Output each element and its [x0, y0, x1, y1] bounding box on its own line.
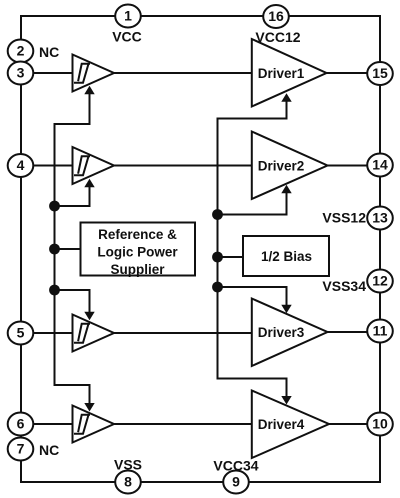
svg-text:VCC34: VCC34: [213, 458, 258, 474]
svg-text:11: 11: [373, 323, 388, 339]
buffer B1 (Schmitt input buffer, pin 3): [73, 55, 115, 92]
arrowhead: control into buffer B2: [84, 179, 94, 188]
op-amp Driver1: [252, 39, 327, 107]
Reference & Logic Power Supplier block: [81, 223, 196, 278]
junction: right bus / 1/2 Bias branch: [212, 252, 223, 263]
wire: Driver3 output to pin 11: [328, 331, 381, 333]
arrowhead: control into Driver4: [281, 396, 291, 405]
pin 6: [8, 413, 34, 436]
op-amp Driver3: [252, 299, 328, 367]
svg-text:13: 13: [372, 210, 388, 226]
net label VCC12: [255, 29, 300, 45]
net label NC (pin 2): [39, 44, 59, 60]
svg-text:1/2 Bias: 1/2 Bias: [261, 249, 312, 264]
svg-text:12: 12: [372, 273, 388, 289]
wire: buffer B4 output to Driver4 input: [114, 423, 252, 425]
op-amp Driver4: [252, 391, 329, 459]
pin 1: [115, 5, 141, 28]
net label VSS34: [322, 278, 366, 294]
junction: right bus / Driver3 branch: [212, 282, 223, 293]
svg-text:Driver4: Driver4: [258, 417, 305, 432]
wire: pin 4 to buffer B2 input: [21, 165, 73, 167]
pin 7: [8, 438, 34, 461]
svg-text:9: 9: [232, 474, 240, 490]
wire: Driver2 output to pin 14: [328, 165, 381, 167]
wire: pin 3 to buffer B1 input: [21, 72, 73, 74]
svg-text:NC: NC: [39, 44, 59, 60]
buffer B4 (Schmitt input buffer, pin 6): [73, 406, 115, 443]
pin 10: [367, 413, 393, 436]
arrowhead: control into buffer B1: [84, 86, 94, 95]
pin 16: [263, 5, 289, 28]
arrowhead: control into Driver1: [281, 93, 291, 102]
svg-text:6: 6: [17, 416, 25, 432]
arrowhead: control into buffer B3: [84, 312, 94, 321]
1/2 Bias block: [243, 236, 329, 276]
svg-text:Driver1: Driver1: [258, 66, 305, 81]
wire: buffer B1 output to Driver1 input: [114, 72, 252, 74]
svg-text:VSS34: VSS34: [322, 278, 366, 294]
arrowhead: control into Driver2: [281, 185, 291, 194]
svg-text:14: 14: [372, 157, 388, 173]
net label VSS: [114, 457, 142, 473]
wire: buffer B3 output to Driver3 input: [114, 332, 252, 334]
net label NC (pin 7): [39, 442, 59, 458]
svg-text:NC: NC: [39, 442, 59, 458]
wire: pin 5 to buffer B3 input: [21, 332, 73, 334]
svg-text:VSS12: VSS12: [322, 210, 366, 226]
pin 11: [367, 320, 393, 343]
net label VCC34: [213, 458, 258, 474]
wire: Driver4 output to pin 10: [329, 423, 380, 425]
svg-text:Logic Power: Logic Power: [97, 245, 178, 260]
pin 14: [367, 154, 393, 177]
svg-text:8: 8: [124, 474, 132, 490]
wire: right bus branch to Driver2 control arrow: [218, 193, 287, 215]
wire: left control bus (buffer B1 arrow down to buffer B4 arrow): [55, 93, 90, 404]
svg-text:VCC12: VCC12: [255, 29, 300, 45]
svg-text:Supplier: Supplier: [110, 262, 165, 277]
svg-text:5: 5: [17, 325, 25, 341]
pin 13: [367, 207, 393, 230]
arrowhead: control into buffer B4: [84, 403, 94, 412]
svg-text:4: 4: [17, 157, 25, 173]
svg-text:Reference &: Reference &: [98, 227, 177, 242]
junction: right bus / Driver2 branch: [212, 209, 223, 220]
pin 3: [8, 62, 34, 85]
wire: buffer B2 output to Driver2 input: [114, 165, 252, 167]
pin 4: [8, 154, 34, 177]
svg-text:1: 1: [124, 8, 132, 24]
wire: right bus branch to 1/2 Bias block: [218, 256, 244, 258]
svg-text:VSS: VSS: [114, 457, 142, 473]
pin 15: [367, 62, 393, 85]
pin 8: [115, 471, 141, 494]
wire: Driver1 output to pin 15: [327, 72, 381, 74]
pin 9: [223, 471, 249, 494]
wire: left bus branch to buffer B3 control arrow: [55, 290, 90, 313]
net label VSS12: [322, 210, 366, 226]
svg-text:16: 16: [268, 8, 284, 24]
junction: left bus / B3 branch: [49, 285, 60, 296]
svg-text:2: 2: [17, 43, 25, 59]
svg-text:3: 3: [17, 65, 25, 81]
wire: pin 6 to buffer B4 input: [21, 423, 73, 425]
op-amp Driver2: [252, 132, 328, 200]
svg-text:Driver3: Driver3: [258, 325, 305, 340]
wire: left bus branch to Reference & Logic Power Supplier: [55, 248, 81, 250]
wire: right control bus (Driver1 arrow down to Driver4 arrow): [218, 101, 287, 398]
svg-text:15: 15: [372, 65, 388, 81]
junction: left bus / reference supplier branch: [49, 244, 60, 255]
buffer B2 (Schmitt input buffer, pin 4): [73, 147, 115, 184]
pin 5: [8, 322, 34, 345]
arrowhead: control into Driver3: [281, 305, 291, 314]
pin 12: [367, 270, 393, 293]
svg-text:10: 10: [372, 416, 388, 432]
svg-text:Driver2: Driver2: [258, 159, 305, 174]
svg-text:VCC: VCC: [112, 29, 142, 45]
wire: left bus branch to buffer B2 control arrow: [55, 187, 90, 207]
net label VCC: [112, 29, 142, 45]
pin 2: [8, 40, 34, 63]
junction: left bus / B2 branch: [49, 201, 60, 212]
svg-text:7: 7: [17, 441, 25, 457]
buffer B3 (Schmitt input buffer, pin 5): [73, 315, 115, 352]
wire: right bus branch to Driver3 control arrow: [218, 287, 287, 306]
